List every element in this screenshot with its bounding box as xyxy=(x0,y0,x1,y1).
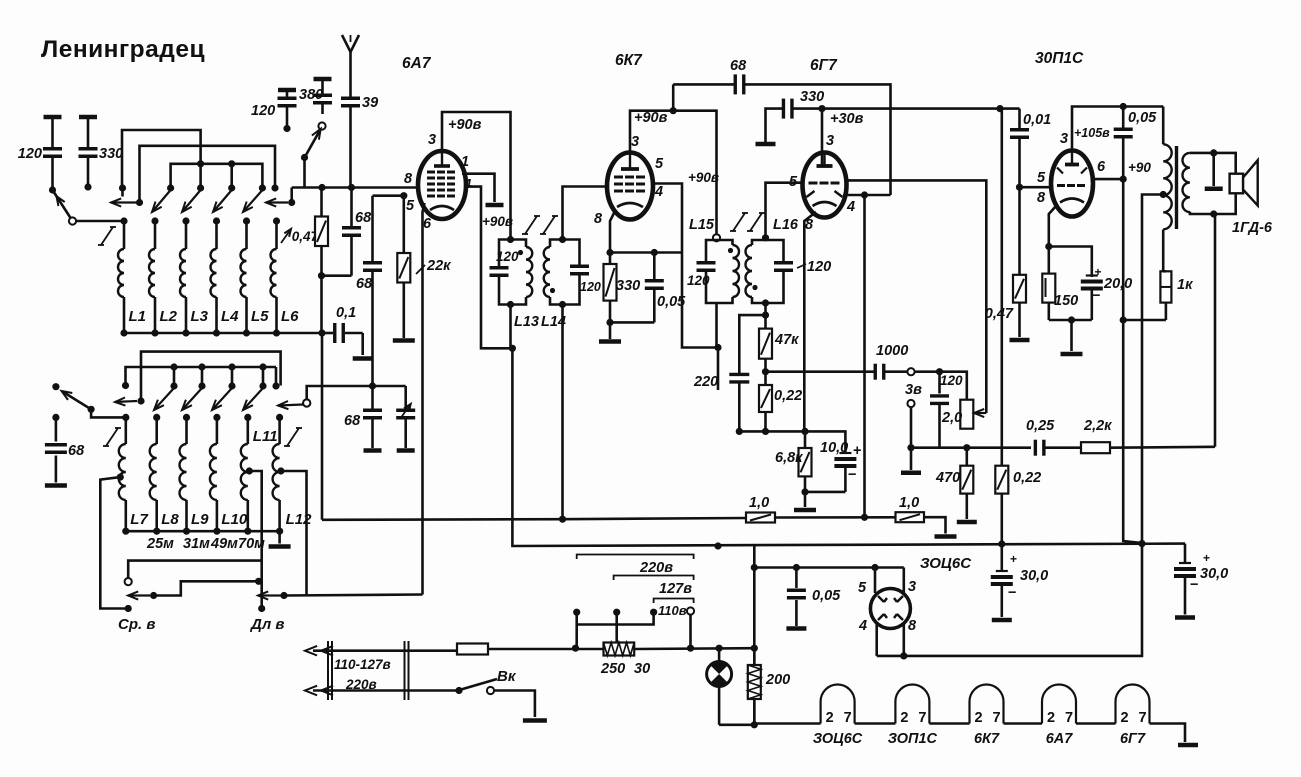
svg-text:0,01: 0,01 xyxy=(1023,112,1051,128)
svg-text:3в: 3в xyxy=(905,382,922,398)
heater winding 6К7 xyxy=(929,685,1003,748)
svg-text:220в: 220в xyxy=(639,560,673,576)
mains plug lower prong xyxy=(305,686,456,696)
ground (Vk) xyxy=(523,718,547,723)
svg-text:−: − xyxy=(1008,585,1016,601)
wire 30P1S pin8 cathode xyxy=(1049,206,1056,247)
svg-text:8: 8 xyxy=(1037,190,1046,206)
wire 0,05 line xyxy=(754,566,904,569)
wire 6K7 pin4 xyxy=(653,184,682,253)
svg-text:3: 3 xyxy=(428,132,436,148)
svg-text:1000: 1000 xyxy=(876,343,908,359)
svg-text:30: 30 xyxy=(634,661,650,677)
open terminal xyxy=(303,399,310,406)
fuse xyxy=(457,644,604,655)
resistor 470 xyxy=(935,448,977,522)
svg-text:Вк: Вк xyxy=(497,668,517,685)
wire 6K7 pin3 anode up xyxy=(630,111,717,234)
capacitor 68 (bank2) xyxy=(45,414,85,486)
rheostat 250-30 xyxy=(600,643,650,678)
wire L12 tap xyxy=(277,467,306,595)
svg-text:6К7: 6К7 xyxy=(974,731,1000,747)
node 3v ground xyxy=(901,444,921,473)
svg-text:6А7: 6А7 xyxy=(1046,731,1074,747)
heater winding ЗОЦ6С xyxy=(754,685,862,748)
wire B+ from rectifier xyxy=(877,544,1142,656)
svg-text:L10: L10 xyxy=(221,511,248,528)
svg-text:200: 200 xyxy=(765,672,790,688)
wire 6A7 pin4 down xyxy=(464,187,512,349)
mains plug upper prong xyxy=(305,646,457,656)
svg-text:L3: L3 xyxy=(191,308,209,325)
svg-text:6А7: 6А7 xyxy=(402,55,432,72)
node pot bottom xyxy=(963,444,970,451)
svg-text:150: 150 xyxy=(1054,293,1078,309)
node anode/0,05 xyxy=(1120,103,1127,110)
svg-text:330: 330 xyxy=(99,146,123,162)
wire 6G7 pin3 xyxy=(821,109,824,165)
svg-text:25м: 25м xyxy=(146,536,174,552)
resistor 330 (6K7 cathode) xyxy=(604,253,641,324)
svg-text:1ГД-6: 1ГД-6 xyxy=(1232,220,1273,236)
terminal +90v bar xyxy=(482,205,513,229)
wavelength labels xyxy=(146,536,265,552)
svg-text:5: 5 xyxy=(655,156,664,172)
wire pin4 down to AGC 1,0 line xyxy=(863,195,866,517)
svg-text:−: − xyxy=(848,467,856,483)
svg-text:7: 7 xyxy=(1139,710,1147,726)
wire L11 tap to Dl.v contact xyxy=(246,467,262,608)
svg-text:L7: L7 xyxy=(130,511,148,528)
svg-text:0,22: 0,22 xyxy=(1013,470,1041,486)
wire 6G7 anode line to volume xyxy=(822,107,1000,110)
capacitor 68 (a) xyxy=(322,188,372,276)
node primary tap xyxy=(1160,191,1167,198)
wire bank2 busB xyxy=(126,367,277,386)
svg-text:4: 4 xyxy=(846,199,855,215)
capacitor 1000 xyxy=(875,343,908,380)
svg-text:−: − xyxy=(1092,288,1100,304)
capacitor trimmer padder xyxy=(396,386,415,451)
wire pin8 bottom xyxy=(902,622,905,656)
wire 1,0 right to ground xyxy=(924,517,946,533)
capacitor 120 (phono) xyxy=(930,372,949,448)
node L15 top xyxy=(713,234,720,241)
svg-text:2,2к: 2,2к xyxy=(1083,418,1112,434)
ground (1,0 right) xyxy=(935,534,957,539)
svg-text:L9: L9 xyxy=(191,511,209,528)
coil L9 xyxy=(180,414,210,535)
svg-text:0,1: 0,1 xyxy=(336,305,356,321)
coil L13 xyxy=(511,240,540,331)
contact Dl.v upper xyxy=(255,578,262,585)
svg-text:220в: 220в xyxy=(345,677,377,692)
tube U2 6K7 xyxy=(594,52,664,227)
svg-text:+90в: +90в xyxy=(448,117,482,133)
svg-text:1,0: 1,0 xyxy=(749,495,769,511)
ground (heater chain) xyxy=(1178,743,1198,748)
svg-text:L6: L6 xyxy=(281,308,299,325)
svg-text:6: 6 xyxy=(423,216,432,232)
capacitor 68 padder xyxy=(344,386,382,451)
node 68 coupling junction xyxy=(670,107,677,114)
svg-text:30П1С: 30П1С xyxy=(1035,50,1084,67)
switch Dl.v wiper xyxy=(258,591,288,599)
switch arm S2 xyxy=(62,391,95,413)
wire rectifier feed from bus xyxy=(753,546,756,725)
svg-text:4: 4 xyxy=(858,618,867,634)
node padder junction xyxy=(369,382,376,389)
svg-text:ЗОП1С: ЗОП1С xyxy=(888,731,938,747)
node L15 bottom xyxy=(714,303,721,390)
wire 6A7 pin5 xyxy=(373,194,404,197)
svg-text:7: 7 xyxy=(844,710,852,726)
coil L14 xyxy=(541,240,566,331)
svg-text:120: 120 xyxy=(807,259,831,275)
svg-text:L2: L2 xyxy=(160,308,178,325)
svg-text:2: 2 xyxy=(975,710,983,726)
switch wiper arrow band1 right xyxy=(266,188,295,207)
svg-text:6Г7: 6Г7 xyxy=(1120,731,1146,747)
capacitor 220 xyxy=(693,374,749,431)
svg-text:1,0: 1,0 xyxy=(899,495,919,511)
node heater line start xyxy=(719,721,758,728)
node secondary top xyxy=(1210,149,1217,156)
tap 110v node xyxy=(650,609,657,616)
contact L1 stub xyxy=(121,188,124,197)
wire L7 tap to Sr.v contact xyxy=(100,474,128,609)
svg-text:L11: L11 xyxy=(253,428,278,445)
tap jog xyxy=(577,612,654,624)
svg-text:ЗОЦ6С: ЗОЦ6С xyxy=(813,731,863,747)
contact above L7 xyxy=(122,382,129,389)
switch wiper arrow bank2 left xyxy=(115,397,145,405)
svg-text:120: 120 xyxy=(687,273,710,288)
svg-text:10,0: 10,0 xyxy=(820,440,848,456)
wire rectifier anodes top xyxy=(874,568,877,594)
wire +90 rail down xyxy=(1123,179,1142,543)
capacitor 0,01 xyxy=(1000,109,1051,188)
ground (22k) xyxy=(393,338,415,343)
node bus junctions xyxy=(509,345,1146,550)
open terminal (1000) xyxy=(907,368,914,375)
svg-text:+: + xyxy=(853,443,861,459)
svg-text:+90в: +90в xyxy=(688,170,719,185)
wire lamp bottom xyxy=(719,723,754,726)
svg-text:6,8к: 6,8к xyxy=(775,450,803,466)
svg-text:+90в: +90в xyxy=(634,110,668,126)
svg-text:2: 2 xyxy=(1047,710,1055,726)
label +90v (6K7) xyxy=(634,110,668,126)
wire busB drop L9 xyxy=(198,363,205,386)
label +90v (pin4 area) xyxy=(688,170,719,185)
wire 30P1S pin3 anode xyxy=(1072,107,1161,152)
svg-text:L5: L5 xyxy=(251,308,269,325)
transformer T1 primary xyxy=(1161,107,1172,272)
svg-text:7: 7 xyxy=(993,710,1001,726)
svg-text:+: + xyxy=(1203,551,1210,565)
capacitor 39 (antenna) xyxy=(341,95,378,187)
wire 30P1S pin6 screen xyxy=(1092,178,1123,181)
svg-text:2,0: 2,0 xyxy=(941,410,962,426)
capacitor 380 (antenna) xyxy=(299,79,332,114)
capacitor 20,0 electrolytic xyxy=(1049,265,1132,320)
bracket 127v xyxy=(614,576,694,598)
svg-text:L8: L8 xyxy=(161,511,179,528)
wire 6G7 pin8 cathode down xyxy=(804,212,816,431)
wire secondary bottom down xyxy=(1214,214,1217,447)
tap open terminal xyxy=(687,607,694,648)
svg-text:68: 68 xyxy=(730,58,747,74)
svg-text:3: 3 xyxy=(1060,131,1068,147)
node / ground (6K7 cathode) xyxy=(599,319,621,342)
capacitor 30,0 electrolytic (right) xyxy=(1174,544,1228,618)
svg-text:3: 3 xyxy=(631,134,639,150)
svg-text:6К7: 6К7 xyxy=(615,52,643,69)
coil L16 xyxy=(746,217,799,303)
node 150 bottom / ground xyxy=(1061,316,1083,354)
svg-text:22к: 22к xyxy=(426,258,451,274)
tap 220v xyxy=(573,609,580,649)
svg-text:2: 2 xyxy=(826,710,834,726)
capacitor 10,0 electrolytic xyxy=(805,440,861,492)
switch contact arrow to L8 xyxy=(154,382,178,410)
wire heater end to ground xyxy=(1150,724,1186,743)
wire L16 bottom branch to 220 cap xyxy=(739,315,765,374)
capacitor 30,0 electrolytic (left) xyxy=(991,544,1048,620)
svg-text:127в: 127в xyxy=(659,581,692,597)
node antenna junction xyxy=(318,184,355,191)
wire tap to B+ rail xyxy=(1142,195,1163,544)
svg-text:220: 220 xyxy=(693,374,718,390)
node mains junctions xyxy=(687,645,758,652)
lamp (dial light) xyxy=(707,648,732,725)
svg-text:+: + xyxy=(1010,552,1017,566)
svg-text:68: 68 xyxy=(356,276,373,292)
svg-text:7: 7 xyxy=(918,710,926,726)
node 6,8k bottom / ground xyxy=(794,488,816,510)
tube U3 6G7 xyxy=(789,57,855,233)
node L13 bottom xyxy=(507,301,514,348)
switch contact arrow to L10 xyxy=(212,382,236,410)
label 220v xyxy=(345,677,377,692)
capacitor 120 (L14 tank) xyxy=(563,240,601,305)
capacitor 330 (top-left) xyxy=(79,117,124,191)
svg-text:3: 3 xyxy=(826,133,834,149)
trimmer marks L15/L16 xyxy=(730,213,765,231)
node +90 xyxy=(1120,160,1152,183)
switch contact arrow to L5 xyxy=(243,184,266,212)
coil L10 xyxy=(210,414,248,535)
capacitor 0,05 (6K7 cathode) xyxy=(610,253,686,323)
resistor 200 (ballast) xyxy=(748,648,790,725)
coil L4 xyxy=(211,217,240,336)
switch wiper arrow band1 left xyxy=(111,198,143,206)
tap 127v xyxy=(613,609,620,643)
wire pin4 of 6K7 down to L15 bottom xyxy=(682,253,718,348)
svg-text:3: 3 xyxy=(908,579,916,595)
resistor 1,0 (right) xyxy=(896,495,925,522)
wire padder line xyxy=(307,386,406,399)
svg-text:49м: 49м xyxy=(210,536,238,552)
switch Vk xyxy=(455,668,516,694)
contact Sr.v bottom xyxy=(118,605,155,633)
wire arm to L7 xyxy=(91,409,126,417)
node 0,47/68 junction xyxy=(318,272,325,333)
wire to 120 cap top xyxy=(915,370,940,373)
plug separation bars xyxy=(328,641,409,700)
svg-text:330: 330 xyxy=(616,278,640,294)
wire cathode to 20,0 xyxy=(1049,247,1092,278)
node AGC junction xyxy=(736,428,809,435)
capacitor 68 coupling xyxy=(673,58,790,111)
ground (330 cap) xyxy=(756,142,776,147)
svg-text:5: 5 xyxy=(858,580,867,596)
svg-text:30,0: 30,0 xyxy=(1020,568,1048,584)
svg-text:8: 8 xyxy=(594,211,603,227)
trimmer mark on L7 xyxy=(103,428,121,446)
open contact xyxy=(69,217,76,224)
coil L8 xyxy=(150,414,180,535)
node 47k bottom xyxy=(762,368,769,375)
heater winding 6Г7 xyxy=(1076,685,1150,748)
potentiometer 2,0 xyxy=(940,373,973,429)
svg-text:6Г7: 6Г7 xyxy=(810,57,838,74)
label 30Ts6S (rectifier) xyxy=(920,555,972,572)
resistor 1,0 (left) xyxy=(746,495,775,523)
node AGC / 6G7 pin4 xyxy=(861,514,868,521)
wire bank2 busA xyxy=(141,352,281,401)
capacitor 120 (L13 tank) xyxy=(490,240,520,305)
svg-text:L12: L12 xyxy=(286,511,313,528)
capacitor 0,1 xyxy=(318,305,362,355)
resistor 1k (field) xyxy=(1125,271,1193,320)
open contact Sr.v xyxy=(125,578,132,585)
svg-text:5: 5 xyxy=(406,198,415,214)
capacitor 0,05 (rectifier) xyxy=(786,568,841,629)
svg-text:5: 5 xyxy=(1037,170,1046,186)
svg-text:31м: 31м xyxy=(183,536,210,552)
svg-text:68: 68 xyxy=(344,413,361,429)
svg-text:0,47: 0,47 xyxy=(985,306,1014,322)
svg-text:0,05: 0,05 xyxy=(1128,110,1157,126)
svg-text:0,22: 0,22 xyxy=(774,388,802,404)
resistor 0,47 (variable) xyxy=(315,188,328,276)
contact L6 xyxy=(271,184,278,191)
resistor 0,47 (volume) xyxy=(985,187,1030,340)
pot wiper arrow xyxy=(974,409,986,417)
coil L5 xyxy=(241,217,270,336)
capacitor 120 (top-left) xyxy=(18,117,62,190)
switch wiper arrow bank2 right xyxy=(278,399,310,409)
wire secondary center to chassis xyxy=(1212,153,1215,186)
coil L15 xyxy=(689,217,739,303)
label 3v phono input xyxy=(905,382,922,398)
svg-text:68: 68 xyxy=(68,443,85,459)
svg-text:0,25: 0,25 xyxy=(1026,418,1055,434)
switch Sr.v wiper xyxy=(128,581,259,599)
svg-text:ЗОЦ6С: ЗОЦ6С xyxy=(920,555,972,572)
label 110-127v xyxy=(334,657,391,672)
wire: L coils bottom bus xyxy=(124,332,322,335)
coil L2 xyxy=(149,217,178,336)
node 0,05 top xyxy=(793,564,800,571)
transformer core xyxy=(1175,146,1178,229)
svg-text:L13: L13 xyxy=(514,314,539,330)
switch contact arrow to L4 xyxy=(213,184,235,212)
wire 47k to 1000 cap line xyxy=(766,370,875,373)
node anode line to 0,01 xyxy=(996,105,1003,112)
node fuse out xyxy=(572,645,579,652)
coil L3 xyxy=(180,217,209,336)
svg-text:470: 470 xyxy=(935,470,960,486)
wire AGC junction bus xyxy=(739,431,845,452)
svg-text:110в: 110в xyxy=(658,603,687,618)
node 1k to +90 rail xyxy=(1120,316,1127,323)
node secondary bottom xyxy=(1210,210,1217,217)
svg-text:4: 4 xyxy=(654,184,663,200)
wire: lower coils bottom bus xyxy=(126,530,280,533)
capacitor 120 (L16 tank) xyxy=(766,240,832,303)
svg-text:L15: L15 xyxy=(689,217,715,233)
svg-text:2: 2 xyxy=(900,710,908,726)
svg-text:47к: 47к xyxy=(774,332,799,348)
wire 6K7 pin8 cathode xyxy=(610,211,615,253)
wire to L1 top xyxy=(76,220,124,223)
svg-text:L16: L16 xyxy=(773,217,799,233)
coil L12 xyxy=(273,414,313,535)
node L16 bottom xyxy=(762,299,769,318)
coil L11 xyxy=(241,414,278,535)
heater winding 6А7 xyxy=(1004,685,1077,748)
trimmer mark on L1 xyxy=(98,227,116,245)
tube U4 30P1S xyxy=(1035,50,1106,217)
wire 6A7 pin3 anode to L13 top xyxy=(442,112,511,240)
tube U1 6A7 xyxy=(402,55,472,232)
resistor 6,8k xyxy=(775,431,812,492)
node 30P1S grid xyxy=(1016,184,1023,191)
node L16 top xyxy=(762,234,769,241)
node 6G7 anode junction / +30v xyxy=(818,105,863,127)
wire AGC drop from L-bus xyxy=(321,333,324,520)
wire 3v terminal down xyxy=(910,407,913,448)
label +90v (6A7 anode) xyxy=(448,117,482,133)
svg-text:120: 120 xyxy=(940,373,963,388)
wire bus3 xyxy=(171,164,263,188)
svg-text:1: 1 xyxy=(461,154,469,170)
node rectifier feed xyxy=(751,564,758,571)
wire Vk to chassis xyxy=(494,691,535,718)
wire L14 top to 6K7 grid xyxy=(563,187,609,240)
wire: antenna bus to tube pin8 xyxy=(292,186,421,189)
tube U5 30Ts6S rectifier xyxy=(858,579,917,634)
wire 68 cap to 6G7 line xyxy=(790,84,891,195)
switch pivot contact (left) xyxy=(52,383,59,390)
capacitor 120 (antenna trim) xyxy=(251,90,297,132)
svg-text:0,05: 0,05 xyxy=(812,588,841,604)
switch contact arrow to L2 xyxy=(152,184,174,212)
wire busB drop L11 xyxy=(259,363,276,386)
svg-text:250: 250 xyxy=(600,661,625,677)
open terminal 3v xyxy=(907,400,914,407)
resistor 47k xyxy=(759,315,799,372)
svg-text:L1: L1 xyxy=(129,308,147,325)
wire bus3 drop A xyxy=(197,160,204,188)
svg-text:30,0: 30,0 xyxy=(1200,566,1228,582)
wire down to 0,22 (B+) xyxy=(1000,109,1002,466)
trimmer mark on L12 xyxy=(284,428,302,446)
node cathode xyxy=(606,249,658,256)
